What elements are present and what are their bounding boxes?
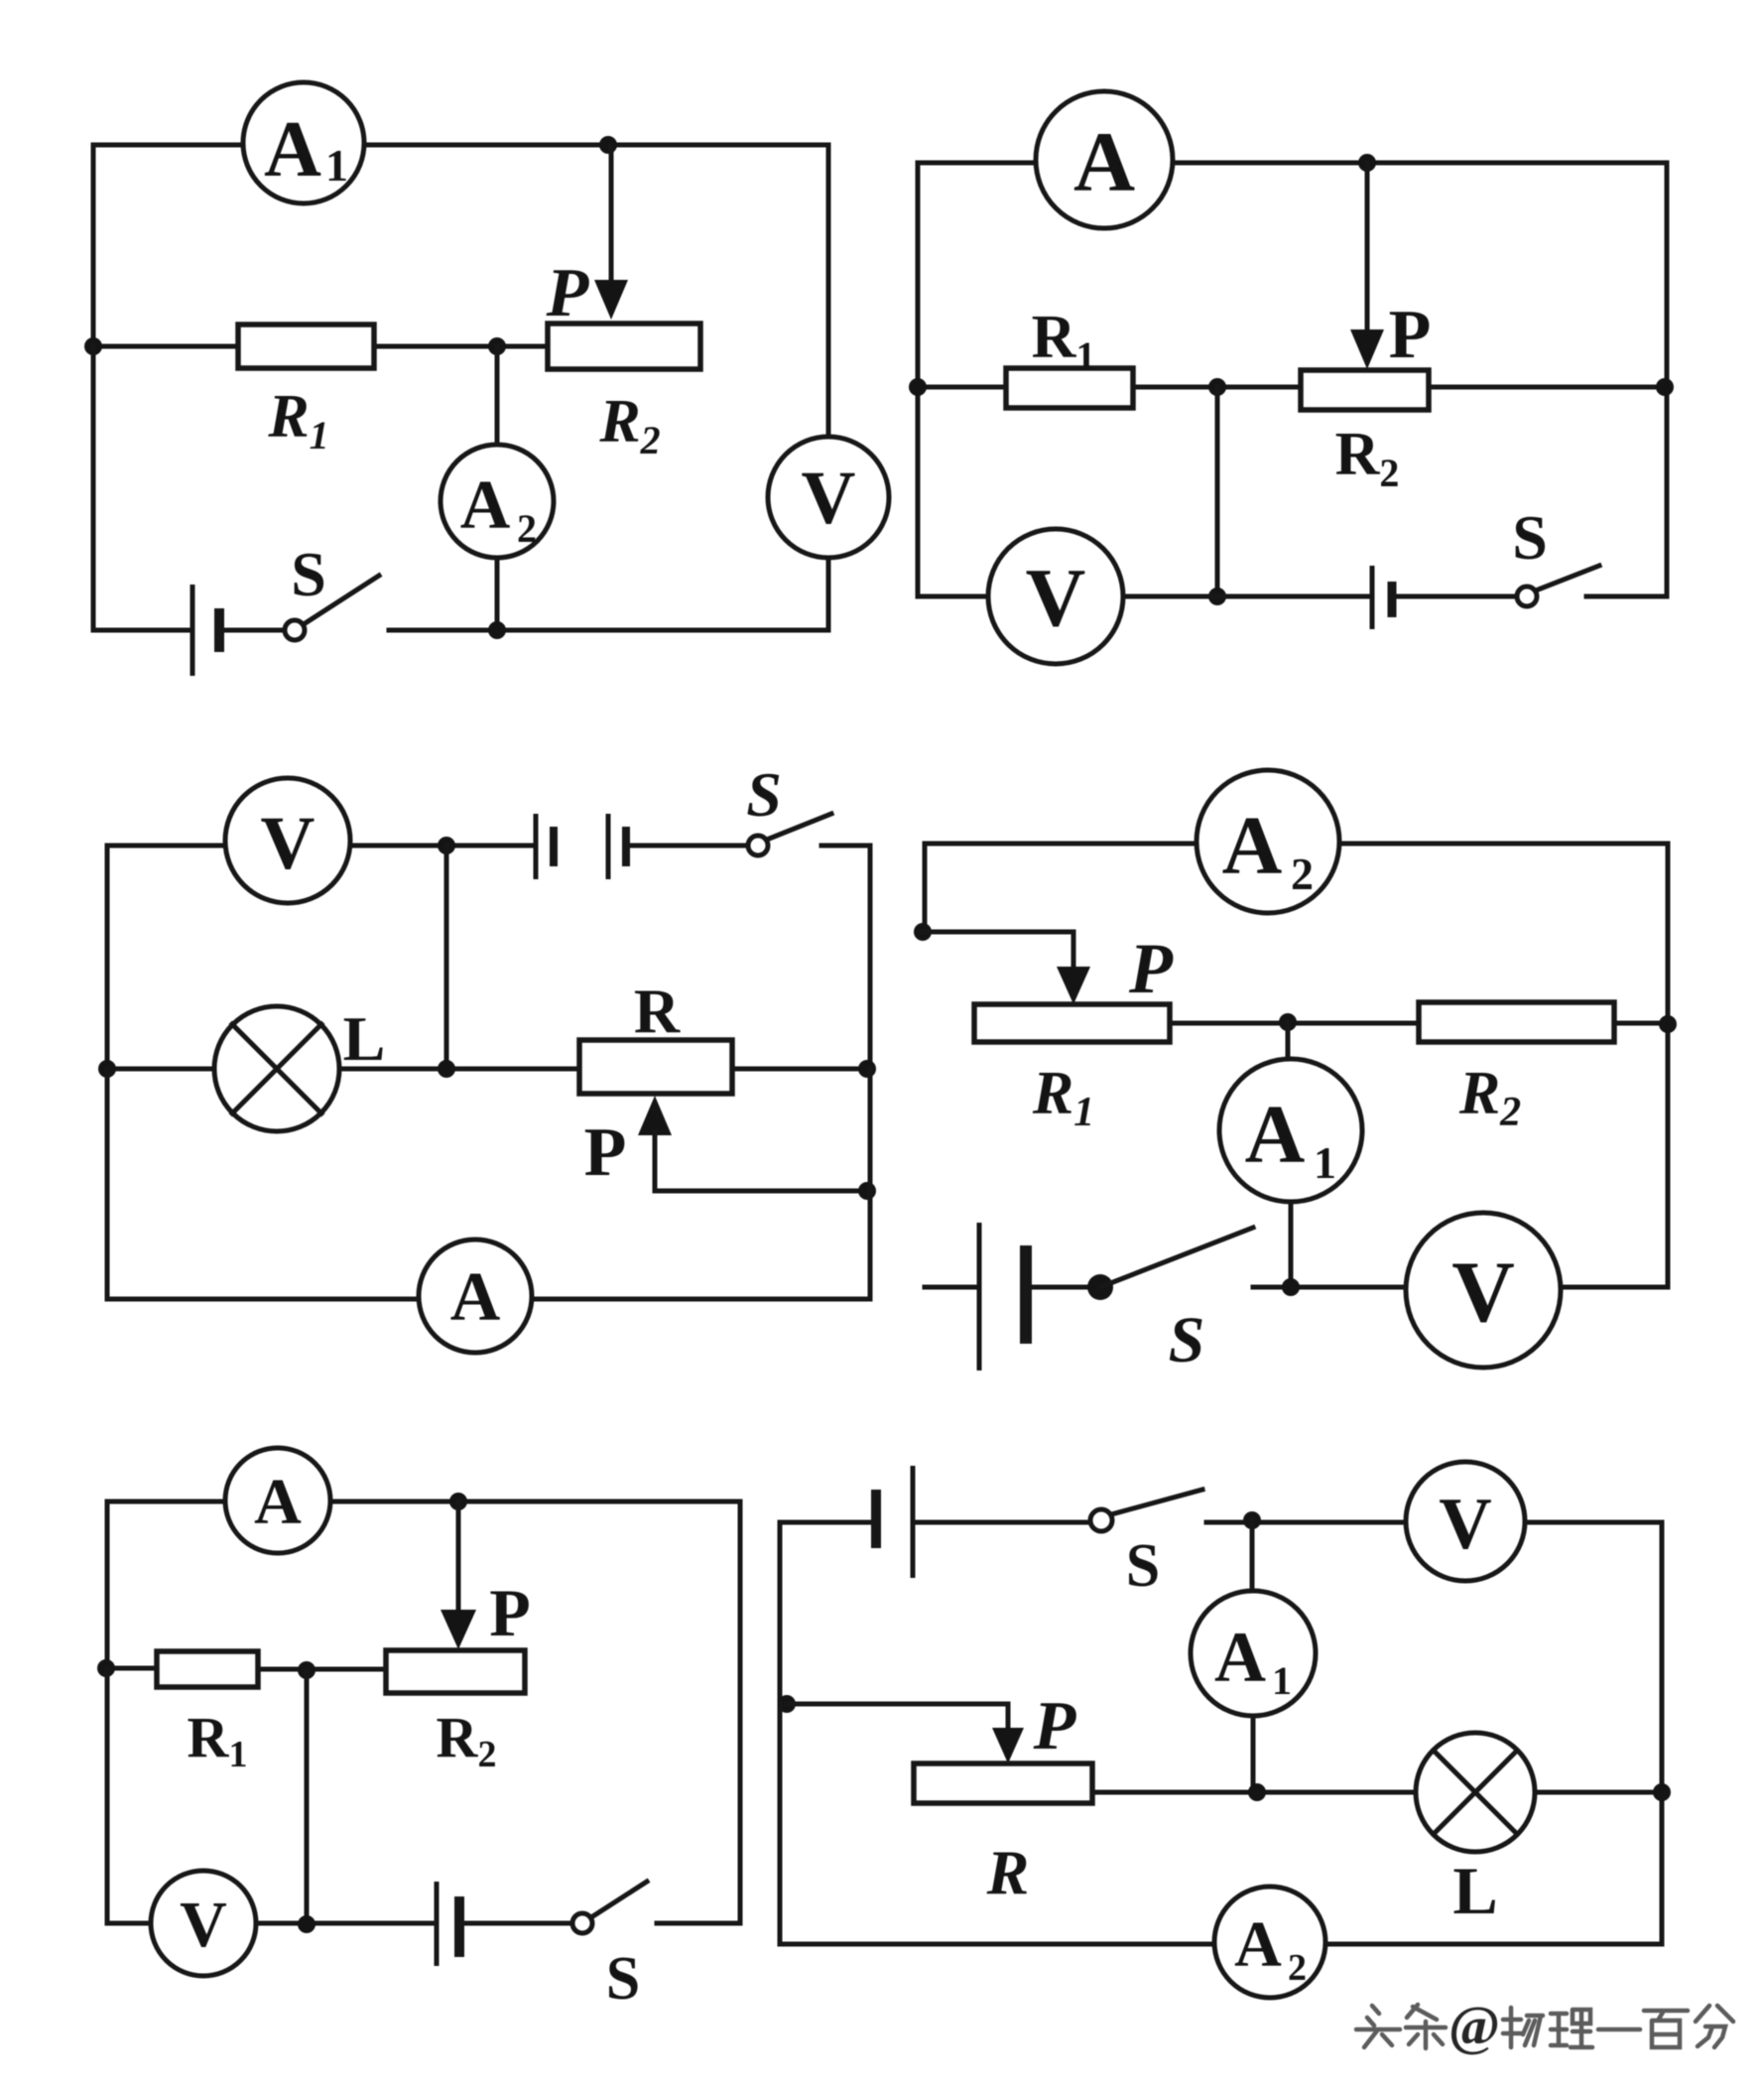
svg-text:P: P — [1128, 929, 1174, 1008]
ammeter A2 — [441, 445, 554, 558]
wire: slider feed (C4) — [923, 932, 1073, 971]
switch S (C4): blade — [1100, 1228, 1253, 1287]
battery (C5): short thick plate — [454, 1896, 464, 1957]
wire: lamp to R (C3) — [339, 1067, 579, 1072]
wire: lamp to right wire (C6) — [1535, 1790, 1662, 1795]
wire: C2 bottom left — [918, 594, 988, 599]
svg-text:S: S — [1512, 502, 1548, 573]
wire: slider shaft and return (C3) — [655, 1131, 870, 1191]
wire: C3 right lower — [532, 1069, 870, 1299]
battery cell 2 (C3): short thick plate — [622, 827, 630, 866]
wire: C1 mid row left — [93, 344, 238, 349]
ammeter A1 (C6) — [1191, 1591, 1316, 1716]
wire: C5 bottom left — [107, 1668, 151, 1923]
wire: V to battery — [1123, 594, 1370, 599]
wire: A2 branch upper — [495, 346, 500, 447]
svg-text:A: A — [1234, 1908, 1282, 1981]
node: top junction (C6) — [1243, 1511, 1261, 1529]
wire: C4 top right — [1339, 844, 1668, 1287]
svg-text:S: S — [1126, 1532, 1160, 1600]
wire: C3 top left — [107, 846, 225, 1069]
svg-text:R: R — [634, 976, 681, 1046]
battery (C1): long plate — [190, 585, 195, 676]
wire: center drop (C5) — [305, 1670, 310, 1923]
node: left junction (C4) — [914, 923, 932, 941]
switch S (C1): pivot circle — [285, 620, 305, 640]
watermark glyph li — [1551, 2010, 1592, 2047]
switch S (C2): pivot circle — [1517, 587, 1537, 606]
svg-text:V: V — [1451, 1244, 1515, 1341]
wire: C5 top left — [107, 1501, 225, 1668]
wire: V to right corner (C6) — [1525, 1522, 1662, 1944]
node: top junction (slider feed) — [1358, 154, 1376, 172]
svg-text:A: A — [1245, 1089, 1306, 1181]
svg-text:A: A — [460, 467, 511, 544]
watermark glyph tiao — [1406, 2005, 1446, 2048]
rheostat R2 (C5) — [386, 1650, 525, 1693]
watermark glyph yi — [1598, 2027, 1640, 2032]
switch S (C5): pivot circle — [572, 1913, 592, 1933]
svg-text:P: P — [584, 1114, 627, 1191]
ammeter A2 (C4) — [1197, 770, 1339, 913]
svg-text:2: 2 — [517, 506, 537, 551]
svg-text:V: V — [1026, 552, 1086, 644]
svg-text:V: V — [802, 457, 856, 540]
voltmeter V (C2) — [988, 529, 1123, 664]
wire: A1 down to bottom (C4) — [1289, 1202, 1294, 1287]
wire: C1 top right of A1 — [364, 145, 828, 437]
resistor R1 (C1) — [238, 325, 374, 368]
node: top junction (C5) — [449, 1493, 467, 1510]
wire: C1 left side down to battery — [93, 346, 190, 630]
watermark 头条 @物理一百分 — [1356, 1996, 1733, 2057]
wire: slider drop — [1365, 163, 1370, 333]
resistor R1 (C5) — [157, 1651, 258, 1687]
svg-text:A: A — [450, 1259, 501, 1336]
node: mid junction (C5) — [298, 1661, 315, 1679]
voltmeter V (C1) — [768, 437, 889, 558]
node: left mid junction (C5) — [97, 1659, 115, 1677]
node: right junction (C4) — [1659, 1015, 1677, 1033]
battery (C5): long plate — [435, 1882, 440, 1966]
ammeter A2 (C6) — [1214, 1887, 1325, 1998]
node: mid junction (C6) — [1248, 1783, 1266, 1801]
node: A1 bottom junction (C4) — [1282, 1278, 1300, 1296]
ammeter A1 (C4) — [1219, 1059, 1362, 1202]
voltmeter V (C4) — [1406, 1213, 1561, 1368]
wire: V to battery (C3) — [350, 844, 534, 848]
switch S (C4): pivot dot — [1087, 1274, 1113, 1300]
ammeter A1 — [243, 82, 364, 203]
voltmeter V (C3) — [225, 778, 350, 903]
node: mid junction — [488, 337, 506, 355]
svg-text:L: L — [343, 1003, 386, 1074]
node: mid junction (C4) — [1279, 1013, 1297, 1031]
wire: R2 to right wire (C4) — [1614, 1021, 1668, 1026]
battery (C6): long plate — [911, 1466, 916, 1578]
voltmeter V (C5) — [151, 1871, 256, 1976]
wire: C3 mid left — [107, 1067, 214, 1072]
svg-text:S: S — [746, 759, 782, 830]
wire: C1 bottom right of switch — [389, 558, 828, 630]
wire: C4 top left — [925, 844, 1197, 932]
switch S (C6): blade — [1111, 1490, 1202, 1514]
wire: battery to switch — [224, 628, 285, 633]
wire: switch to corner (C5) — [657, 1921, 740, 1926]
svg-text:P: P — [1033, 1688, 1077, 1764]
rheostat R2 (C1) — [548, 324, 700, 369]
node: mid junction (C3) — [438, 1060, 455, 1078]
node: left mid junction — [909, 378, 927, 396]
svg-text:S: S — [1169, 1304, 1205, 1376]
battery (C1): short thick plate — [214, 608, 224, 652]
watermark glyph fen — [1696, 2006, 1733, 2047]
lamp L (C6) — [1416, 1733, 1535, 1852]
node: mid junction (C2) — [1208, 378, 1226, 396]
svg-text:A: A — [1073, 114, 1135, 209]
arrow: slider P of R2 (C2) — [1350, 329, 1384, 369]
svg-text:A: A — [264, 106, 321, 194]
node: top junction (C3) — [438, 837, 455, 854]
svg-text:1: 1 — [325, 140, 348, 191]
wire: C2 mid row — [918, 385, 1006, 390]
watermark glyph tou — [1356, 2006, 1400, 2047]
switch S (C5): blade — [591, 1882, 647, 1917]
arrow: slider P of R1 (C4) — [1057, 967, 1090, 1004]
wire: R1 to node (C5) — [258, 1667, 386, 1672]
battery (C2): long plate — [1370, 566, 1375, 629]
svg-text:A: A — [1214, 1618, 1266, 1697]
node: junction top (slider feed) — [599, 136, 617, 154]
arrow: slider P of R2 (C5) — [441, 1610, 476, 1649]
wire: R to right wire (C3) — [732, 1067, 870, 1072]
svg-text:S: S — [606, 1945, 640, 2013]
wire: V to right corner (C4) — [1561, 1285, 1668, 1290]
switch S (C6): pivot circle — [1090, 1509, 1112, 1531]
wire: slider drop (C5) — [456, 1501, 461, 1614]
wire: R1 to node — [374, 344, 548, 349]
switch S (C3): pivot circle — [748, 836, 768, 855]
wire: battery to switch (C5) — [464, 1921, 572, 1926]
node: bottom junction (C5) — [298, 1915, 315, 1933]
node: left mid junction (C1) — [84, 337, 102, 355]
svg-text:1: 1 — [1314, 1137, 1336, 1188]
node: left mid junction (C6) — [778, 1695, 796, 1713]
switch S (C2): blade — [1536, 566, 1599, 590]
ammeter A (C5) — [225, 1448, 330, 1553]
wire: C5 mid left — [107, 1666, 157, 1671]
svg-text:A: A — [1222, 800, 1283, 892]
svg-text:2: 2 — [1288, 1947, 1307, 1989]
arrow: slider P of R2 — [594, 280, 628, 320]
wire: battery to switch (C3) — [631, 844, 748, 848]
wire: R1 to R2 — [1133, 385, 1301, 390]
arrow: slider P of R (C3, up) — [638, 1096, 672, 1135]
wire: R2 to right side — [1429, 385, 1667, 390]
wire: V to battery (C5) — [256, 1921, 435, 1926]
svg-text:@: @ — [1449, 1996, 1500, 2057]
node: right mid junction (C6) — [1653, 1783, 1671, 1801]
wire: switch to right corner (C3) — [821, 846, 870, 1069]
svg-text:2: 2 — [1291, 848, 1314, 899]
battery (C4): short thick plate — [1020, 1245, 1032, 1344]
wire: C3 bottom left — [107, 1069, 419, 1299]
node: slider return junction (C3) — [858, 1182, 876, 1200]
wire: C2 top left — [918, 163, 1036, 596]
wire: center drop to bottom — [1215, 387, 1220, 596]
voltmeter V (C6) — [1406, 1462, 1525, 1581]
wire: A1 branch lower (C6) — [1251, 1716, 1256, 1792]
wire: R1 to R2 (C4) — [1170, 1021, 1419, 1026]
wire: slider drop from top wire — [609, 145, 614, 284]
svg-text:V: V — [1439, 1484, 1491, 1565]
ammeter A (C2) — [1036, 91, 1173, 228]
node: right mid junction (C3) — [858, 1060, 876, 1078]
svg-text:P: P — [1389, 297, 1432, 373]
battery (C4): long plate — [977, 1223, 982, 1370]
wire: switch to corner (C2) — [1586, 594, 1667, 599]
switch S (C1): blade — [304, 576, 379, 624]
wire: C1 top side — [93, 145, 243, 346]
rheostat R1 (C4) — [974, 1004, 1170, 1042]
svg-text:P: P — [489, 1575, 531, 1650]
resistor R2 (C4) — [1419, 1002, 1614, 1042]
battery cell 1 (C3): long plate — [534, 814, 539, 879]
battery (C2): short thick plate — [1388, 582, 1397, 617]
wire: A2 branch lower — [495, 558, 500, 630]
wire: C4 bottom left — [925, 1285, 977, 1290]
svg-text:V: V — [261, 802, 315, 885]
ammeter A (C3) — [419, 1240, 532, 1353]
svg-text:L: L — [1452, 1853, 1497, 1928]
wire: R to lamp (C6) — [1092, 1790, 1416, 1795]
resistor R1 (C2) — [1006, 368, 1133, 408]
wire: C6 bottom right of A2 — [1325, 1942, 1662, 1947]
arrow: slider P of R (C6) — [992, 1728, 1024, 1763]
svg-text:A: A — [254, 1466, 302, 1538]
wire: battery to switch pivot (C4) — [1032, 1285, 1088, 1290]
svg-text:S: S — [291, 539, 326, 609]
watermark glyph bai — [1644, 2011, 1688, 2047]
svg-text:1: 1 — [1272, 1658, 1292, 1703]
lamp L (C3) — [214, 1006, 339, 1131]
wire: node to A1 (C4) — [1286, 1022, 1291, 1062]
wire: center drop (C3) — [444, 846, 449, 1069]
wire: C6 bottom left — [780, 1704, 1214, 1944]
wire: C6 top left — [780, 1522, 874, 1704]
node: left mid junction (C3) — [98, 1060, 116, 1078]
wire: battery to switch (C6) — [918, 1520, 1090, 1525]
battery (C6): short thick plate — [871, 1490, 881, 1548]
node: bottom junction (C2) — [1208, 587, 1226, 605]
node: bottom junction — [488, 621, 506, 639]
battery cell 1 (C3): short thick plate — [550, 827, 558, 866]
svg-text:P: P — [546, 255, 590, 331]
battery cell 2 (C3): long plate — [606, 814, 611, 879]
wire: C2 top right of A — [1173, 163, 1667, 596]
node: right mid junction — [1656, 378, 1674, 396]
svg-text:R: R — [986, 1837, 1030, 1907]
watermark glyph wu — [1503, 2008, 1543, 2047]
wire: switch to V (C4) — [1253, 1285, 1406, 1290]
wire: slider feed (C6) — [787, 1704, 1008, 1735]
rheostat R (C3) — [579, 1040, 732, 1094]
switch S (C3): blade — [767, 814, 831, 840]
rheostat R2 (C2) — [1301, 370, 1429, 410]
wire: C5 top right of A — [330, 1501, 740, 1923]
svg-text:V: V — [180, 1889, 227, 1961]
wire: battery to switch (C2) — [1397, 594, 1517, 599]
wire: A1 branch upper (C6) — [1250, 1520, 1255, 1591]
rheostat R (C6) — [914, 1763, 1092, 1803]
wire: switch to V (C6) — [1206, 1520, 1406, 1525]
